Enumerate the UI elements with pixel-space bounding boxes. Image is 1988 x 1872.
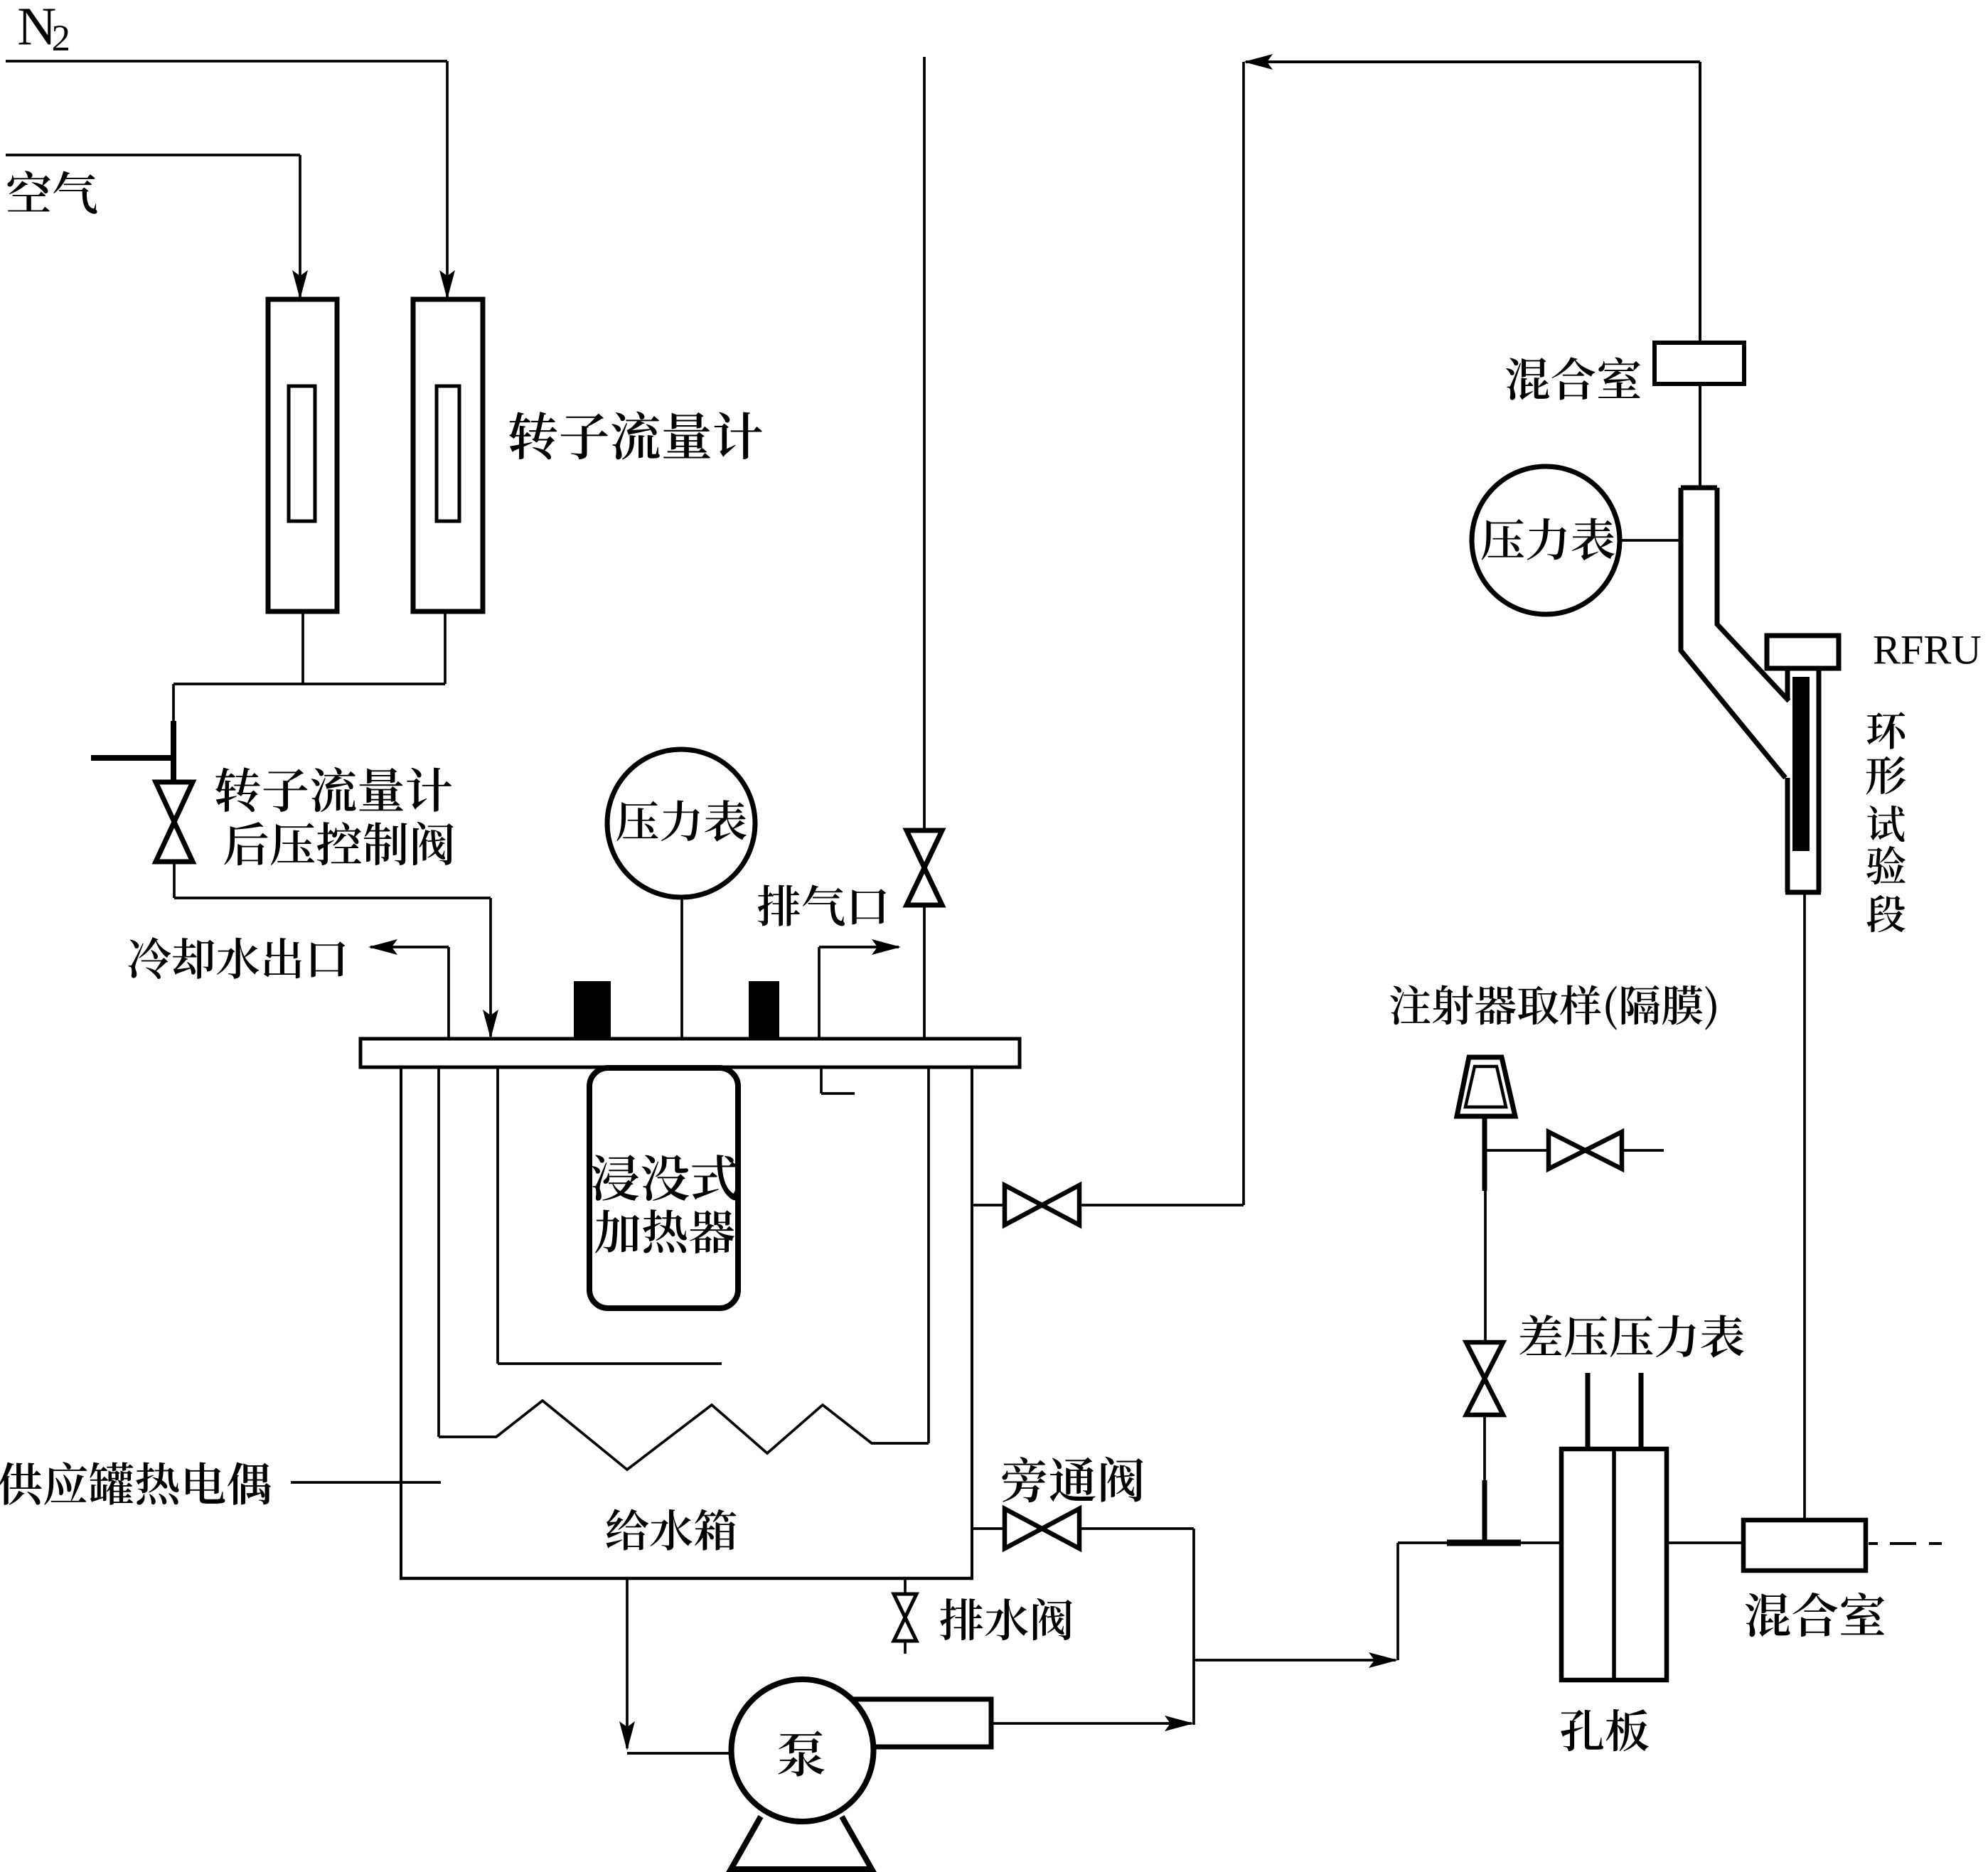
wire DP line down to main xyxy=(1483,1415,1486,1480)
wire cooling water outlet with arrow xyxy=(447,947,450,1039)
wire syringe stem (thick) xyxy=(1482,1116,1487,1191)
wire sampling tee xyxy=(1485,1149,1549,1152)
label RFRU xyxy=(1874,636,1981,664)
label 后压控制阀 xyxy=(224,822,453,865)
valve 旁通阀 (bypass valve) xyxy=(1005,1509,1042,1549)
wire orifice pressure taps xyxy=(1586,1373,1591,1450)
label 试 xyxy=(1867,806,1905,842)
label 冷却水出口 xyxy=(129,937,346,979)
valve sampling valve xyxy=(1549,1132,1586,1169)
label 加热器 xyxy=(595,1209,734,1253)
label 供应罐热电偶 xyxy=(0,1462,271,1504)
wire to orifice run with arrow xyxy=(1194,1659,1396,1662)
label 排水阀 xyxy=(940,1598,1072,1640)
wire thick stem above control valve xyxy=(171,721,176,783)
tank outer wall right xyxy=(971,1067,973,1580)
wire air feed horizontal xyxy=(6,154,300,156)
wire thermocouple probe xyxy=(291,1481,441,1484)
label 混合室 (bottom) xyxy=(1746,1593,1884,1637)
wire air feed vertical drop xyxy=(299,155,301,297)
valve 排水阀 (drain valve) xyxy=(894,1594,916,1617)
mixing chamber (bottom) 混合室 xyxy=(1743,1520,1866,1571)
rotameter (N2) xyxy=(413,299,483,611)
syringe septum symbol xyxy=(1457,1057,1515,1116)
RFRU connector box xyxy=(1767,636,1839,668)
label 形 xyxy=(1866,756,1906,795)
tank inner wall right xyxy=(927,1067,930,1443)
heater guide tube xyxy=(496,1067,499,1364)
rotameter (air) xyxy=(268,299,337,611)
label 压力表 (left gauge) xyxy=(616,800,746,842)
label 浸没式 xyxy=(592,1155,737,1201)
tank outer wall left xyxy=(400,1067,402,1580)
label 转子流量计 (rotameter) xyxy=(509,412,762,460)
label 排气口 xyxy=(758,884,886,926)
heater terminal (right, black) xyxy=(749,981,779,1037)
tank inner wall left xyxy=(437,1067,440,1437)
heater terminal (left, black) xyxy=(574,981,611,1037)
mixing chamber (top) 混合室 xyxy=(1655,343,1744,384)
label 注射器取样(隔膜) xyxy=(1390,985,1716,1029)
wire rotameter outlets manifold xyxy=(301,611,304,684)
wire orifice inlet run xyxy=(1398,1541,1561,1544)
wire N2 feed horizontal xyxy=(6,60,447,63)
tank bottom xyxy=(400,1577,973,1580)
pump 泵 xyxy=(732,1679,874,1822)
wire bypass from tank xyxy=(972,1527,1005,1530)
wire dashed continuation xyxy=(1869,1542,1878,1545)
valve on tank return line xyxy=(1005,1185,1042,1225)
label 给水箱 (feed water tank) xyxy=(606,1509,737,1550)
orifice plate 孔板 xyxy=(1561,1449,1667,1680)
exhaust dip tube xyxy=(820,1067,823,1093)
immersion heater 浸没式加热器 xyxy=(589,1068,738,1308)
wire return line from top mixing chamber xyxy=(1246,60,1700,63)
gauge 压力表 (tank pressure gauge) xyxy=(680,897,683,1039)
wire return riser (right of tank) xyxy=(1242,62,1245,1205)
label 差压压力表 xyxy=(1520,1315,1744,1357)
wire drain stub xyxy=(904,1578,907,1654)
annular test section tube xyxy=(1785,668,1790,700)
pump discharge nozzle xyxy=(853,1699,991,1747)
wire control valve outlet to tank lid xyxy=(173,862,176,898)
heated rod (black) xyxy=(1792,677,1810,851)
label 空气 xyxy=(7,171,97,214)
wire riser to test section xyxy=(1803,892,1806,1520)
tank lid (给水箱 cover plate) xyxy=(360,1039,1020,1067)
label 段 xyxy=(1866,895,1905,933)
pipe elbow to test section xyxy=(1681,486,1717,491)
wire orifice outlet xyxy=(1667,1541,1743,1544)
wire top mixing chamber to elbow xyxy=(1699,384,1701,488)
heating coil zigzag xyxy=(439,1401,929,1470)
valve on vent line xyxy=(907,830,942,868)
wire N2 feed vertical drop xyxy=(446,61,449,297)
label 混合室 (top) xyxy=(1506,357,1640,400)
valve DP isolation valve xyxy=(1466,1342,1503,1379)
label 泵 (pump) xyxy=(779,1731,825,1776)
valve 转子流量计后压控制阀 (back-pressure control valve) xyxy=(156,782,193,822)
wire exhaust port with arrow xyxy=(818,947,821,1039)
wire tank side outlet to return riser xyxy=(972,1204,1005,1207)
pump base xyxy=(731,1817,872,1869)
label 压力表 (right gauge) xyxy=(1482,518,1615,560)
label 验 xyxy=(1866,846,1906,884)
label 孔板 xyxy=(1561,1709,1648,1751)
wire DP tap tick xyxy=(1447,1540,1521,1546)
label 转子流量计 (valve label line1) xyxy=(215,767,451,812)
wire pump discharge with arrow xyxy=(991,1722,1192,1725)
label 环 xyxy=(1867,712,1906,749)
gauge 压力表 (loop pressure gauge) xyxy=(1620,539,1681,542)
wire inlet tick from left xyxy=(91,755,173,761)
wire tall vent line xyxy=(923,57,926,830)
wire sampling line down xyxy=(1484,1191,1487,1342)
label 旁通阀 xyxy=(1002,1457,1143,1502)
label N xyxy=(18,9,55,45)
wire tank outlet down to pump suction xyxy=(626,1578,629,1748)
wire bypass riser xyxy=(1192,1529,1195,1725)
label N subscript 2 xyxy=(53,26,68,50)
